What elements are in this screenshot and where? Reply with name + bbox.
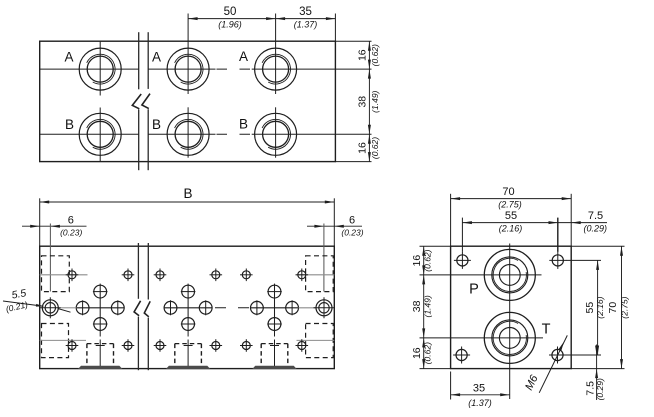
dimension 35 arrows [276, 17, 286, 20]
svg-text:(0.29): (0.29) [584, 224, 608, 234]
station 3 mounting pad [252, 366, 296, 369]
dimension 35 arrows [451, 393, 461, 396]
port A1 thread arc [87, 54, 115, 84]
port A1 inner circle [87, 56, 113, 82]
bolt hole x301.8 top row crosshair [296, 274, 309, 276]
bolt hole x72 bottom row hole circle [68, 342, 76, 350]
hidden end-cavity dashed rect top-left [42, 256, 70, 292]
dimension B extension right [333, 198, 335, 246]
port B3 inner circle [263, 121, 289, 147]
svg-text:38: 38 [411, 300, 423, 312]
bottom edge extension right [335, 161, 371, 163]
column 2 centerline / extension [187, 14, 189, 95]
top edge extension right [335, 40, 371, 42]
right vertical dimension 70 arrows [620, 246, 623, 256]
svg-text:(0.23): (0.23) [341, 227, 363, 237]
leader tail 5.5 [58, 309, 71, 313]
port B1 inner circle [87, 121, 113, 147]
svg-text:(2.16): (2.16) [595, 296, 605, 318]
port A2 outer circle [167, 48, 209, 90]
bolt hole x301.8 bottom row crosshair [296, 345, 309, 347]
dimension 6 right arrows [314, 225, 324, 228]
station 3 port circle left [251, 301, 264, 314]
bolt hole x246.3 bottom row crosshair [240, 345, 253, 347]
svg-text:16: 16 [356, 142, 368, 154]
station 1 cross horizontal [76, 307, 124, 309]
end view mounting hole bottom-left crosshair [453, 354, 470, 356]
bolt hole x215.8 top row crosshair [210, 274, 223, 276]
station 3 cross vertical [274, 284, 276, 332]
end view mounting hole bottom-right crosshair [549, 354, 566, 356]
svg-text:(1.49): (1.49) [370, 90, 380, 112]
port A3 thread arc [262, 54, 290, 84]
station 3 port circle top [268, 285, 281, 298]
dimension 70 top arrows [451, 197, 461, 200]
svg-text:6: 6 [349, 214, 355, 226]
left vertical dim arrows [422, 246, 425, 256]
svg-text:B: B [239, 116, 248, 131]
svg-text:(0.62): (0.62) [423, 249, 433, 271]
hidden end-cavity dashed rect bottom-left [42, 324, 69, 358]
port A2 thread arc [175, 54, 203, 84]
left edge extension up [450, 194, 452, 246]
svg-text:7.5: 7.5 [588, 210, 603, 222]
station 2 foot centerline [187, 332, 189, 337]
station 2 foot tick [184, 345, 193, 347]
svg-text:(2.75): (2.75) [620, 296, 630, 318]
station 1 foot hidden outline [86, 344, 88, 366]
port B3 thread arc [262, 119, 290, 149]
port B1 thread arc [87, 119, 115, 149]
svg-text:16: 16 [411, 255, 423, 267]
end hole 5.5 left inner [45, 303, 55, 313]
station 2 mounting pad [166, 366, 210, 369]
station 3 port circle bottom [268, 318, 281, 331]
svg-text:(2.75): (2.75) [498, 199, 522, 209]
station 1 foot centerline [99, 332, 101, 337]
bolt hole x128 top row hole circle [124, 271, 132, 279]
bolt hole x72 top row hole circle [68, 271, 76, 279]
bottom edge extension left [420, 368, 451, 370]
svg-text:B: B [183, 186, 192, 201]
end view mounting hole bottom-left hole circle [456, 349, 467, 360]
station 2 foot hidden outline [174, 344, 176, 366]
svg-text:(0.62): (0.62) [370, 44, 380, 66]
M6 leader arrow [558, 341, 565, 351]
dimension 35 line [451, 394, 510, 396]
bolt hole x160 bottom row hole circle [156, 342, 164, 350]
bolt hole x246.3 top row crosshair [240, 274, 253, 276]
bottom view break line right [147, 243, 149, 300]
dimension 55 top line [462, 222, 558, 224]
station 3 foot tick [270, 345, 279, 347]
station 3 tick marks [256, 300, 258, 315]
right edge extension up [334, 14, 336, 42]
station 3 port circle right [286, 301, 299, 314]
end view mounting hole top-right crosshair [549, 259, 566, 261]
dimension 7.5 bottom arrows [595, 346, 598, 356]
svg-text:55: 55 [584, 302, 596, 314]
svg-text:(1.49): (1.49) [423, 295, 433, 317]
dimension 55 top arrows [462, 221, 472, 224]
end view vertical centerline [509, 244, 511, 400]
bolt hole x301.8 bottom row hole circle [298, 342, 306, 350]
bolt hole x72 bottom row crosshair [66, 345, 79, 347]
port P bore circle [499, 265, 520, 286]
bolt hole x246.3 top row hole circle [242, 271, 250, 279]
bottom view break line left [137, 243, 139, 299]
svg-text:35: 35 [299, 6, 312, 18]
mounting hole row extension top-right [566, 259, 601, 261]
top view break line left [138, 32, 140, 89]
end hole 5.5 right outer [316, 300, 332, 316]
dimension 6 right line [307, 225, 362, 227]
port P counterbore circle [492, 257, 528, 293]
station 1 port circle bottom [94, 318, 107, 331]
dimension 7.5 bottom line [596, 345, 598, 401]
port T outer circle [484, 312, 535, 363]
port T horizontal centerline [420, 337, 544, 339]
station 2 port circle right [199, 301, 212, 314]
svg-text:6: 6 [68, 214, 74, 226]
station 1 cross vertical [99, 284, 101, 332]
left edge extension down [450, 372, 452, 400]
mounting hole extension top-left [461, 218, 463, 252]
port B2 outer circle [167, 113, 209, 155]
bolt hole x301.8 top row hole circle [298, 271, 306, 279]
end view mounting hole top-right hole circle [552, 255, 563, 266]
dimension 6 left line [22, 225, 87, 227]
station 3 foot centerline [274, 332, 276, 337]
dimension B extension left [39, 198, 41, 246]
svg-text:(1.37): (1.37) [294, 20, 318, 30]
row B centerline [40, 133, 139, 135]
svg-text:16: 16 [411, 347, 423, 359]
port P thread arc [493, 258, 526, 291]
station 2 cross vertical [187, 284, 189, 332]
svg-text:70: 70 [607, 302, 619, 314]
svg-text:P: P [469, 282, 479, 298]
end view mounting hole bottom-right hole circle [552, 349, 563, 360]
dimension 7.5 top arrow [571, 221, 581, 224]
T channel centerline right [297, 339, 335, 341]
hidden end-cavity dashed rect bottom-right [306, 324, 334, 358]
station 2 cross horizontal [164, 307, 212, 309]
right edge extension up [570, 194, 572, 246]
mounting hole row extension bottom-right [566, 354, 601, 356]
station 1 port circle left [76, 301, 89, 314]
port P horizontal centerline [420, 274, 542, 276]
svg-text:(0.62): (0.62) [370, 137, 380, 159]
vertical dim arrows [368, 41, 371, 51]
T channel centerline left [40, 339, 86, 341]
port T bore circle [499, 328, 520, 349]
P channel centerline right [297, 274, 335, 276]
svg-text:A: A [239, 49, 248, 64]
bolt hole x72 top row crosshair [66, 274, 79, 276]
port B2 thread arc [175, 119, 203, 149]
station 2 port circle left [164, 301, 177, 314]
station 1 mounting pad [78, 366, 122, 369]
hidden end-cavity dashed rect top-right [306, 256, 334, 292]
dimension 50 / 35 line [188, 18, 335, 20]
end view mounting hole top-left crosshair [454, 259, 471, 261]
column 3 centerline / extension [275, 14, 277, 95]
svg-text:16: 16 [356, 49, 368, 61]
vertical dimension line 16/38/16 [368, 41, 370, 161]
bolt hole x215.8 bottom row crosshair [210, 345, 223, 347]
svg-text:35: 35 [473, 383, 485, 395]
svg-text:(0.23): (0.23) [60, 227, 82, 237]
P channel centerline left [40, 274, 88, 276]
dimension 70 top line [451, 198, 572, 200]
dimension 6 left arrows [30, 225, 40, 228]
svg-text:T: T [542, 322, 551, 338]
station 3 cross horizontal [251, 307, 299, 309]
bolt hole x160 bottom row crosshair [154, 345, 167, 347]
bottom view plate outline [40, 246, 335, 368]
dimension B line [40, 201, 335, 203]
end view mounting hole top-left hole circle [457, 255, 468, 266]
svg-text:B: B [152, 117, 161, 132]
station 2 tick marks [170, 300, 172, 315]
svg-text:50: 50 [224, 6, 237, 18]
port P outer circle [484, 249, 535, 300]
station 3 foot hidden outline [260, 344, 262, 366]
port B2 inner circle [175, 121, 201, 147]
port A3 inner circle [263, 56, 289, 82]
end hole 5.5 right crosshair [314, 307, 335, 309]
svg-text:38: 38 [356, 96, 368, 108]
station 2 port circle bottom [182, 318, 195, 331]
svg-text:55: 55 [505, 210, 517, 222]
bottom edge extension right [571, 368, 624, 370]
bolt hole x246.3 bottom row hole circle [242, 342, 250, 350]
end view plate outline [451, 246, 572, 368]
port B3 outer circle [255, 113, 297, 155]
dimension B arrows [40, 201, 50, 204]
dimension 50 arrows [188, 17, 198, 20]
svg-text:(0.29): (0.29) [595, 378, 605, 400]
leader arrow 5.5 [36, 304, 44, 308]
port B1 outer circle [79, 113, 121, 155]
bolt hole x215.8 top row hole circle [212, 271, 220, 279]
centerline dash between station 2 and 3 [215, 307, 249, 309]
end hole 5.5 left crosshair [40, 307, 61, 309]
bolt hole x160 top row crosshair [154, 274, 167, 276]
right vertical dimension 55 line [597, 260, 599, 355]
station 1 tick marks [82, 300, 84, 315]
port T thread arc [493, 321, 526, 354]
right vertical dimension 55 arrows [596, 260, 599, 270]
bolt hole x215.8 bottom row hole circle [212, 342, 220, 350]
port A2 inner circle [175, 56, 201, 82]
bolt hole extension right [323, 224, 325, 292]
bolt hole extension left [49, 224, 51, 292]
port A1 outer circle [79, 48, 121, 90]
svg-text:70: 70 [502, 186, 514, 198]
station 2 port circle top [182, 285, 195, 298]
top edge extension right [571, 245, 624, 247]
row A centerline [40, 68, 139, 70]
bolt hole x128 top row crosshair [122, 274, 135, 276]
mounting hole extension top-right [557, 218, 559, 252]
top edge extension left [420, 245, 451, 247]
station 1 port circle top [94, 285, 107, 298]
dimension 7.5 top line [558, 222, 607, 224]
svg-text:B: B [65, 117, 74, 132]
bolt hole x128 bottom row crosshair [122, 345, 135, 347]
station 1 foot tick [96, 345, 105, 347]
M6 leader line [539, 335, 567, 392]
top view break line right [147, 32, 149, 89]
port T counterbore circle [492, 320, 528, 356]
column 1 centerline [99, 41, 101, 95]
end hole 5.5 right inner [319, 303, 329, 313]
station 1 port circle right [111, 301, 124, 314]
svg-text:(2.16): (2.16) [499, 223, 523, 233]
svg-text:(0.62): (0.62) [423, 342, 433, 364]
svg-text:A: A [64, 50, 73, 65]
left vertical dimension line 16/38/16 [423, 246, 425, 368]
svg-text:(1.96): (1.96) [218, 20, 242, 30]
connector line left 5.5 hole to station 1 [61, 307, 77, 309]
leader line 5.5 [3, 301, 44, 306]
bolt hole x160 top row hole circle [156, 271, 164, 279]
svg-text:(1.37): (1.37) [468, 398, 492, 408]
svg-text:A: A [152, 50, 161, 65]
right vertical dimension 70 line [621, 246, 623, 368]
bolt hole x128 bottom row hole circle [124, 342, 132, 350]
port A3 outer circle [255, 48, 297, 90]
end hole 5.5 left outer [42, 300, 58, 316]
top view plate outline [40, 41, 336, 161]
connector line station 3 to right 5.5 hole [299, 307, 317, 309]
